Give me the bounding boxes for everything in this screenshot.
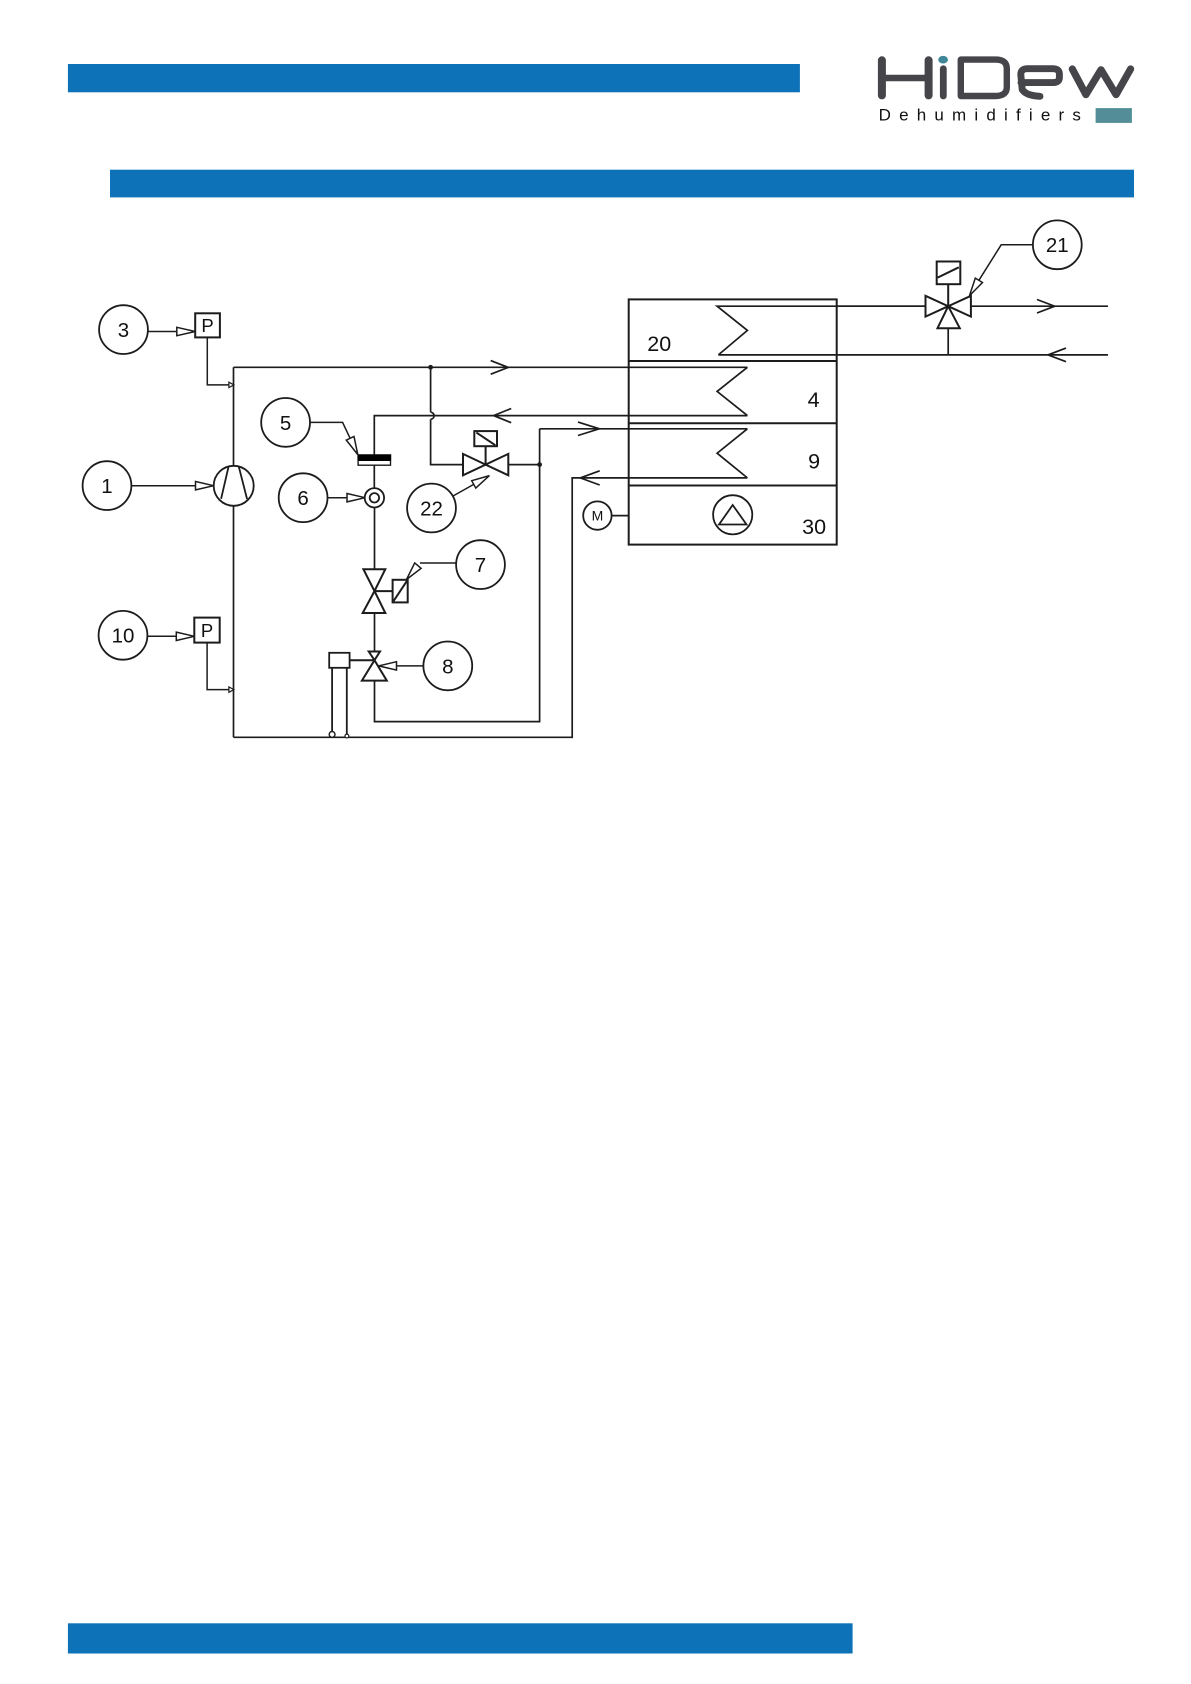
svg-text:P: P bbox=[201, 315, 213, 336]
leader item 7 bbox=[407, 563, 457, 580]
expansion valve 7 bbox=[363, 569, 408, 613]
svg-text:1: 1 bbox=[101, 475, 112, 498]
service valve 8 bbox=[350, 652, 387, 681]
pressure switch P of item 10 bbox=[194, 618, 234, 693]
item circle 3 bbox=[99, 305, 148, 354]
junction node at valve22 outlet bbox=[537, 462, 542, 467]
solenoid valve 22 bbox=[463, 431, 508, 475]
svg-text:Dehumidifiers: Dehumidifiers bbox=[879, 106, 1090, 125]
item circle 5 bbox=[261, 398, 310, 447]
svg-text:M: M bbox=[592, 508, 604, 524]
flow arrow into coil4 bbox=[491, 361, 509, 375]
flow arrow out of coil4 bbox=[494, 409, 512, 423]
svg-text:10: 10 bbox=[112, 625, 135, 648]
item circle 6 bbox=[279, 473, 328, 522]
item circle 21 bbox=[1033, 220, 1082, 269]
coil 9 zigzag bbox=[717, 429, 747, 478]
wire hop over liquid line bbox=[431, 412, 435, 419]
flow arrow into coil9 bbox=[578, 422, 599, 435]
item circle 1 bbox=[83, 461, 132, 510]
wire junction down to valve 8 bbox=[375, 429, 540, 722]
wire coil9 top line bbox=[540, 428, 748, 430]
sight glass 6 bbox=[365, 488, 384, 507]
wire sight glass to filter bbox=[373, 465, 375, 498]
motor M circle bbox=[583, 501, 629, 529]
pressure switch P of item 3 bbox=[195, 313, 234, 387]
svg-text:P: P bbox=[201, 620, 213, 641]
leader item 21 bbox=[970, 245, 1033, 296]
svg-text:3: 3 bbox=[118, 319, 129, 342]
wire condenser top pipe to 3-way valve bbox=[837, 305, 926, 307]
junction node at top line bbox=[428, 365, 433, 370]
wire coil4 bottom / liquid line to filter bbox=[374, 416, 747, 455]
svg-text:6: 6 bbox=[297, 487, 308, 510]
wire valve8 to valve7 bbox=[374, 614, 376, 652]
leader item 1 bbox=[132, 482, 214, 490]
wire hot gas top line to coil 4 bbox=[234, 366, 748, 368]
svg-text:4: 4 bbox=[808, 388, 820, 412]
svg-text:20: 20 bbox=[647, 332, 671, 356]
logo teal square bbox=[1096, 108, 1132, 123]
svg-text:7: 7 bbox=[475, 554, 486, 577]
logo i dot bbox=[938, 56, 948, 64]
logo HiDew bbox=[882, 60, 1131, 97]
flow arrow out of coil9 bbox=[580, 471, 599, 485]
wire left border (suction/discharge riser) bbox=[233, 367, 235, 737]
svg-text:9: 9 bbox=[808, 450, 820, 474]
item circle 8 bbox=[423, 642, 472, 691]
filter drier 5 bbox=[358, 454, 392, 465]
footer bar bbox=[68, 1623, 853, 1653]
title bar bbox=[110, 170, 1134, 198]
drain fitting with legs bbox=[329, 653, 349, 738]
leader item 8 bbox=[379, 662, 424, 670]
leader item 10 bbox=[147, 632, 194, 640]
compressor 1 bbox=[214, 466, 254, 506]
coil 4 zigzag bbox=[717, 367, 747, 415]
svg-text:22: 22 bbox=[420, 497, 443, 520]
wire 3-way valve outlet right bbox=[971, 305, 1108, 307]
wire condenser return pipe bbox=[718, 354, 1108, 356]
svg-text:21: 21 bbox=[1046, 234, 1069, 257]
item circle 22 bbox=[407, 484, 456, 533]
leader item 22 bbox=[453, 476, 490, 497]
3-way valve 21 bbox=[926, 262, 971, 329]
svg-text:8: 8 bbox=[442, 655, 453, 678]
wire coil9 bottom return bbox=[234, 478, 748, 737]
item circle 7 bbox=[456, 540, 505, 589]
coil 20 (condenser) zigzag bbox=[717, 306, 925, 355]
header bar top bbox=[68, 64, 800, 92]
leader item 3 bbox=[148, 327, 195, 335]
wire valve22 to junction bbox=[508, 464, 539, 466]
svg-text:30: 30 bbox=[802, 515, 826, 539]
wire 3-way valve bottom leg bbox=[947, 328, 949, 355]
leader item 6 bbox=[328, 494, 365, 502]
wire valve7 to sight glass bbox=[374, 498, 376, 569]
flow arrow return right bbox=[1048, 348, 1066, 362]
wire branch lower bbox=[431, 419, 463, 464]
item circle 10 bbox=[99, 611, 148, 660]
pump 30 bbox=[713, 495, 752, 534]
leader item 5 bbox=[310, 422, 358, 454]
flow arrow outlet right bbox=[1037, 300, 1055, 314]
heat recovery block outline bbox=[629, 299, 837, 544]
wire branch to solenoid valve 22 bbox=[430, 367, 432, 412]
svg-text:5: 5 bbox=[280, 412, 291, 435]
